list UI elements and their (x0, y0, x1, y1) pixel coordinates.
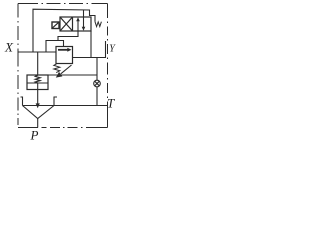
svg-text:X: X (4, 40, 14, 55)
svg-text:T: T (107, 96, 115, 111)
svg-text:P: P (30, 128, 39, 143)
